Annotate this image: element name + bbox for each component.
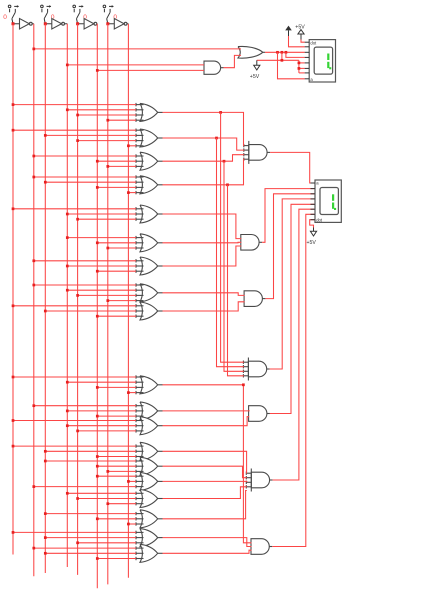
junction on bus — [96, 415, 99, 418]
wire feeder bus to G13 input 2 — [45, 450, 136, 452]
svg-text:+5V: +5V — [307, 240, 317, 246]
and-gate A1 (top) — [204, 61, 224, 74]
junction on bus — [32, 547, 35, 550]
junction on bus — [66, 213, 69, 216]
junction on bus — [44, 460, 47, 463]
or-gate G11 — [136, 402, 163, 420]
wire feeder bus to G10 input 3 — [97, 386, 136, 388]
junction G3 tap — [223, 160, 226, 163]
junction on bus — [44, 450, 47, 453]
junction on bus — [96, 270, 99, 273]
wire bus NOT-IN1 — [33, 24, 35, 577]
wire feeder bus to G5 input 1 — [13, 208, 136, 210]
or-gate G14 — [136, 457, 163, 475]
wire feeder bus to G5 input 3 — [78, 218, 136, 220]
junction on bus — [32, 485, 35, 488]
wire G2 tap down to AND D1 in2 — [217, 138, 244, 367]
junction G4 tap — [226, 183, 229, 186]
or-gate G17 — [136, 510, 163, 528]
wire feeder bus to G3 input 1 — [34, 155, 136, 157]
junction G10 — [242, 383, 245, 386]
wire bus NOT-IN4 — [127, 24, 129, 578]
junction on bus — [12, 445, 15, 448]
+5V supply (filled arrow) — [285, 26, 292, 31]
wire feeder bus to G1 input 3 — [78, 114, 136, 116]
wire G2 out to AND C1 in2 — [163, 138, 245, 150]
wire DS2 dot pin to +5V — [310, 220, 315, 228]
junction on bus — [32, 259, 35, 262]
switch S4 — [103, 5, 114, 24]
junction on bus — [106, 299, 109, 302]
junction on bus — [66, 492, 69, 495]
junction on bus — [106, 119, 109, 122]
7-segment display DS1 — [309, 40, 335, 82]
wire G14 out to AND F1 in2 — [163, 466, 247, 478]
wire G5 out to AND H1 in1 — [163, 214, 242, 239]
wire feeder bus to G14 input 3 — [108, 470, 136, 472]
junction on bus — [44, 512, 47, 515]
junction — [285, 51, 288, 54]
junction on bus — [96, 241, 99, 244]
wire feeder bus to G11 input 3 — [97, 415, 136, 417]
wire G9 out to AND I1 in2 — [163, 302, 245, 311]
wire feeder bus to G13 input 3 — [97, 456, 136, 458]
junction on bus — [66, 236, 69, 239]
wire feeder bus to G14 input 2 — [97, 465, 136, 467]
wire vertical feeding pins d,c,b — [298, 60, 300, 73]
or-gate G7 — [136, 257, 163, 275]
wire G3 tap down to AND D1 in3 — [224, 161, 244, 371]
junction on bus — [96, 475, 99, 478]
wire OR B1 out to DS1 pin f — [265, 51, 305, 53]
junction on bus — [32, 155, 35, 158]
junction on bus — [96, 465, 99, 468]
and-gate E1 — [249, 406, 270, 422]
or-gate G15 — [136, 472, 163, 490]
junction on bus — [12, 103, 15, 106]
wire feeder bus to G6 input 1 — [67, 237, 136, 239]
junction on bus — [127, 391, 130, 394]
wire feeder bus to G16 input 2 — [78, 498, 136, 500]
junction on bus — [44, 536, 47, 539]
wire feeder bus to G18 input 2 — [45, 537, 136, 539]
or-gate G9 — [136, 302, 163, 320]
wire feeder bus to G6 input 2 — [97, 242, 136, 244]
or-gate G8 — [136, 283, 163, 302]
junction on bus — [12, 207, 15, 210]
wire bus IN1 — [12, 24, 14, 555]
wire feeder bus to G10 input 2 — [67, 381, 136, 383]
svg-text:0: 0 — [3, 14, 7, 21]
junction on bus — [44, 134, 47, 137]
or-gate G12 — [136, 417, 163, 435]
wire G8 out to AND I1 in1 — [163, 293, 245, 296]
junction on bus — [44, 552, 47, 555]
wire G13 out to AND F1 in1 — [163, 451, 247, 473]
junction — [66, 64, 69, 67]
junction on bus — [127, 191, 130, 194]
wire feeder bus to G2 input 4 — [128, 145, 136, 147]
wire feeder bus to G8 input 4 — [108, 300, 136, 302]
wire feeder bus to G2 input 2 — [45, 134, 136, 136]
svg-text:+5V: +5V — [250, 74, 260, 80]
node IN1 junction — [12, 22, 15, 25]
wire AND E1 out to DS2 pin e — [270, 204, 314, 413]
junction — [281, 59, 284, 62]
wire feeder bus to G3 input 3 — [108, 165, 136, 167]
and-gate D1 — [243, 358, 269, 381]
wire G19 out to AND G1 in3 — [163, 550, 252, 553]
wire G7 out to AND H1 in3 — [163, 246, 242, 266]
junction on bus — [106, 470, 109, 473]
or-gate G5 — [136, 205, 163, 223]
wire feeder bus to G10 input 1 — [13, 376, 136, 378]
wire feeder bus to G6 input 3 — [108, 247, 136, 249]
or-gate B1 (top) — [238, 46, 265, 58]
junction on bus — [76, 541, 79, 544]
wire branch to DS1 pin e — [286, 52, 305, 57]
junction on bus — [66, 381, 69, 384]
and-gate F1 — [246, 469, 272, 492]
or-gate G6 — [136, 234, 163, 252]
junction on bus — [12, 129, 15, 132]
or-gate G2 — [136, 129, 163, 148]
wire feeder bus to G18 input 1 — [13, 531, 136, 533]
wire feeder bus to G15 input 2 — [128, 480, 136, 482]
junction on bus — [12, 531, 15, 534]
junction on bus — [66, 289, 69, 292]
wire bus1N to OR B1 input 1 — [34, 48, 241, 50]
junction on bus — [66, 424, 69, 427]
or-gate G18 — [136, 529, 163, 547]
wire feeder bus to G1 input 1 — [13, 104, 136, 106]
or-gate G4 — [136, 175, 163, 194]
junction on bus — [76, 139, 79, 142]
junction on bus — [76, 430, 79, 433]
wire feeder bus to G17 input 2 — [97, 518, 136, 520]
and-gate H1 — [241, 235, 262, 251]
junction on bus — [32, 404, 35, 407]
wire AND F1 out to DS2 pin f — [273, 209, 315, 480]
wire G1 tap down to AND D1 in1 — [221, 112, 244, 362]
wire feeder bus to G17 input 1 — [45, 513, 136, 515]
wire feeder bus to G19 input 3 — [97, 558, 136, 560]
wire feeder bus to G1 input 4 — [108, 119, 136, 121]
switch S1 — [8, 5, 19, 24]
wire AND I1 out to DS2 pin c — [265, 194, 314, 299]
junction on bus — [66, 410, 69, 413]
junction on bus — [96, 315, 99, 318]
wire feeder bus to G4 input 1 — [34, 176, 136, 178]
node IN3 junction — [76, 22, 79, 25]
node IN2 junction — [44, 22, 47, 25]
svg-text:+5V: +5V — [295, 25, 305, 31]
junction on bus — [76, 218, 79, 221]
+5V supply (down arrow, top) — [256, 60, 258, 65]
wire feeder bus to G8 input 2 — [67, 289, 136, 291]
wire feeder bus to G5 input 2 — [67, 213, 136, 215]
junction G2 tap — [215, 137, 218, 140]
junction on bus — [32, 176, 35, 179]
junction on bus — [96, 160, 99, 163]
svg-text:dot: dot — [316, 218, 323, 223]
wire feeder bus to G10 input 4 — [128, 392, 136, 394]
display DS1 lit segments (digit 1) — [327, 54, 329, 61]
wire feeder bus to G4 input 2 — [45, 181, 136, 183]
wire G6 out to AND H1 in2 — [163, 241, 242, 244]
wire to DS1 pin d — [299, 62, 305, 64]
junction on bus — [12, 419, 15, 422]
inverter U3 — [78, 19, 98, 30]
wire G16 out to AND F1 in4 — [163, 487, 247, 499]
wire bus NOT-IN3 — [96, 24, 98, 588]
junction on bus — [127, 480, 130, 483]
wire feeder bus to G19 input 1 — [34, 547, 136, 549]
wire feeder bus to G16 input 3 — [108, 503, 136, 505]
svg-text:dot: dot — [310, 40, 317, 45]
junction on bus — [106, 247, 109, 250]
wire bus2N to AND A1 input 1 — [67, 64, 204, 66]
junction on bus — [106, 165, 109, 168]
junction on bus — [96, 517, 99, 520]
wire feeder bus to G7 input 2 — [67, 265, 136, 267]
junction on bus — [127, 144, 130, 147]
wire G18 out to AND G1 in2 — [163, 538, 252, 547]
wire feeder bus to G13 input 1 — [13, 445, 136, 447]
or-gate G16 — [136, 490, 163, 508]
junction on bus — [44, 181, 47, 184]
wire feeder bus to G19 input 2 — [45, 552, 136, 554]
wire branch to +5V rail — [281, 52, 283, 60]
wire AND H1 out to DS2 pin b — [262, 189, 314, 243]
switch S2 — [41, 5, 52, 24]
junction on bus — [76, 294, 79, 297]
wire AND C1 out to DS2 pin a — [270, 152, 314, 183]
wire feeder bus to G4 input 4 — [128, 192, 136, 194]
junction G1 tap — [219, 111, 222, 114]
junction — [276, 51, 279, 54]
wire bus3N to AND A1 input 2 — [97, 69, 204, 71]
wire +5V rail to vertical — [257, 59, 299, 61]
wire G11 out to AND E1 in1 — [163, 409, 250, 412]
wire feeder bus to G1 input 2 — [67, 109, 136, 111]
junction on bus — [96, 455, 99, 458]
and-gate C1 — [244, 141, 270, 164]
wire to DS1 pin b — [299, 72, 305, 74]
wire feeder bus to G9 input 2 — [45, 310, 136, 312]
wire feeder bus to G14 input 1 — [45, 460, 136, 462]
wire feeder bus to G8 input 3 — [78, 294, 136, 296]
wire feeder bus to G11 input 1 — [34, 405, 136, 407]
wire +5V to DS1 pin dot — [301, 40, 305, 43]
junction on bus — [96, 186, 99, 189]
display DS2 lit segments (digit 1) — [332, 194, 334, 201]
junction on bus — [12, 304, 15, 307]
wire feeder bus to G7 input 1 — [34, 260, 136, 262]
wire bus NOT-IN2 — [66, 24, 68, 567]
junction — [32, 48, 35, 51]
switch S3 — [73, 5, 84, 24]
inverter U2 — [45, 19, 67, 30]
wire feeder bus to G2 input 3 — [78, 140, 136, 142]
wire feeder bus to G3 input 2 — [97, 160, 136, 162]
or-gate G3 — [136, 152, 163, 170]
junction on bus — [127, 523, 130, 526]
junction on bus — [76, 114, 79, 117]
wire G17 out up to AND F1 bar — [163, 491, 247, 519]
junction on bus — [12, 376, 15, 379]
wire feeder bus to G12 input 1 — [13, 420, 136, 422]
junction on bus — [32, 284, 35, 287]
wire AND G1 out to DS2 pin g — [272, 214, 314, 546]
wire feeder bus to G18 input 3 — [78, 542, 136, 544]
junction on bus — [76, 497, 79, 500]
junction — [96, 69, 99, 72]
wire feeder bus to G9 input 3 — [97, 315, 136, 317]
wire feeder bus to G2 input 1 — [13, 129, 136, 131]
wire G4 out to AND C1 in4 — [163, 159, 245, 185]
or-gate G10 — [136, 375, 163, 394]
wire G15 out to AND F1 in3 — [163, 480, 247, 483]
wire feeder bus to G16 input 1 — [67, 492, 136, 494]
wire bus IN4 — [107, 24, 109, 585]
wire feeder bus to G11 input 2 — [67, 410, 136, 412]
wire AND A1 out to OR B1 input 2 — [224, 55, 242, 67]
junction on bus — [96, 386, 99, 389]
wire feeder bus to G12 input 2 — [67, 425, 136, 427]
junction on bus — [44, 310, 47, 313]
wire to DS1 pin c — [299, 67, 305, 69]
junction — [298, 62, 301, 65]
wire feeder bus to G15 input 1 — [97, 475, 136, 477]
junction on bus — [96, 557, 99, 560]
and-gate I1 — [244, 291, 265, 307]
wire feeder bus to G7 input 3 — [97, 270, 136, 272]
wire G1 out to AND C1 in1 — [163, 112, 245, 145]
wire bus IN3 — [77, 24, 79, 575]
junction on bus — [66, 108, 69, 111]
junction on bus — [66, 265, 69, 268]
node IN4 junction — [106, 22, 109, 25]
wire branch to DS1 pin a — [278, 52, 305, 79]
junction — [298, 67, 301, 70]
wire feeder bus to G8 input 1 — [34, 284, 136, 286]
or-gate G19 — [136, 544, 163, 562]
junction on bus — [106, 502, 109, 505]
wire feeder bus to G9 input 1 — [13, 305, 136, 307]
junction — [281, 51, 284, 54]
and-gate GG1 — [251, 539, 272, 555]
7-segment display DS2 — [315, 180, 341, 222]
wire feeder bus to G17 input 3 — [128, 523, 136, 525]
wire feeder bus to G12 input 3 — [78, 430, 136, 432]
or-gate G1 — [136, 103, 163, 122]
wire G3 out to AND C1 in3 — [163, 155, 245, 162]
+5V supply (down arrow, display 2) — [313, 228, 315, 232]
wire bus IN2 — [44, 24, 46, 573]
wire feeder bus to G4 input 3 — [97, 186, 136, 188]
wire AND D1 out to DS2 pin d — [270, 199, 315, 369]
wire feeder bus to G15 input 3 — [34, 486, 136, 488]
wire G4 tap down to AND D1 in4 — [228, 185, 244, 376]
inverter U1 — [13, 19, 34, 30]
wire G12 out to AND E1 in2 — [163, 417, 250, 426]
or-gate G13 — [136, 442, 163, 460]
wire +5V to DS1 pin g — [289, 36, 305, 47]
inverter U4 — [108, 19, 129, 30]
wire G10 out junction to AND G1 in1 — [163, 385, 252, 543]
